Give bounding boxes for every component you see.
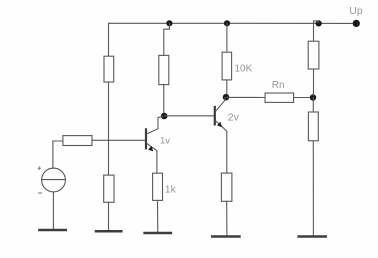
- resistor 10K (collector load of Q2): [222, 52, 232, 80]
- svg-text:1v: 1v: [160, 136, 170, 147]
- wire 10K bottom to collector node of Q2: [226, 80, 228, 96]
- resistor R2 (second column, collector load of Q1): [159, 55, 169, 84]
- svg-text:1k: 1k: [165, 184, 177, 196]
- ground (source): [39, 229, 65, 232]
- wire collector node to base of Q2: [164, 115, 214, 117]
- resistor R4 (lower left): [104, 175, 114, 202]
- wire R5 to ground: [226, 201, 228, 236]
- svg-text:Rn: Rn: [272, 80, 285, 91]
- node junction on rail above 10K (dot): [224, 20, 230, 26]
- node collector of Q2 (dot): [223, 94, 230, 101]
- wire jog from rail junction down to R2: [164, 23, 170, 55]
- wire collector node of Q2 to Rn: [226, 96, 265, 98]
- wire left column to ground: [108, 202, 110, 231]
- resistor R7 (lower right divider): [308, 112, 318, 141]
- ground (right column): [299, 235, 326, 238]
- terminal Up (dot): [353, 20, 360, 27]
- resistor R5 (emitter of Q2): [221, 173, 232, 201]
- ground (1k emitter): [145, 232, 171, 235]
- source V1 internal bar: [42, 179, 66, 181]
- wire jog from top-right junction down to R6: [314, 21, 319, 41]
- svg-text:2v: 2v: [228, 112, 240, 124]
- wire left column middle segment (crosses base wire, no junction): [108, 82, 110, 175]
- transistor Q1 base bar: [145, 129, 147, 148]
- ground (Q2 emitter): [212, 235, 239, 238]
- wire rail junction down to 10K: [226, 23, 228, 52]
- svg-text:10K: 10K: [235, 63, 253, 74]
- wire supply rail Up (top horizontal): [109, 22, 354, 24]
- transistor Q1 collector lead: [147, 116, 163, 133]
- wire Rn right end to right column node: [294, 97, 311, 99]
- transistor Q1 emitter arrow: [148, 146, 153, 152]
- source minus mark: [39, 192, 42, 194]
- wire mid node down to R7: [312, 98, 314, 113]
- transistor Q2 base bar: [214, 107, 216, 125]
- ground (left column): [96, 230, 121, 233]
- svg-text:Up: Up: [349, 5, 363, 17]
- transistor Q2 emitter arrow: [217, 122, 222, 128]
- wire R7 to ground: [312, 141, 314, 236]
- resistor R6 (upper right divider): [308, 41, 319, 69]
- node junction on rail above R2 (dot): [166, 20, 172, 26]
- node junction on rail top right (dot): [316, 20, 322, 26]
- source V1 (circle): [42, 168, 66, 192]
- wire source bottom to ground: [52, 192, 54, 230]
- resistor R8 (horizontal input coupling): [63, 136, 92, 146]
- wire R6 bottom to mid node: [313, 69, 315, 96]
- wire 1k to ground: [157, 200, 159, 232]
- resistor 1k (emitter of Q1): [153, 173, 163, 200]
- transistor Q2 emitter lead: [216, 121, 227, 173]
- node collector of Q1 (dot): [161, 113, 168, 120]
- source plus mark: [38, 167, 41, 170]
- transistor Q1 emitter lead: [147, 144, 157, 174]
- wire source top to coupling resistor: [53, 141, 63, 168]
- wire R8 to Q1 base (crosses left column): [92, 139, 145, 141]
- wire R2 bottom to collector node: [163, 85, 165, 115]
- resistor Rn (horizontal feedback): [265, 93, 294, 102]
- node right column mid (dot): [310, 94, 316, 100]
- transistor Q2 collector lead: [216, 98, 225, 111]
- wire left bias column drop from rail: [108, 23, 110, 56]
- resistor R1 (upper left): [104, 56, 114, 82]
